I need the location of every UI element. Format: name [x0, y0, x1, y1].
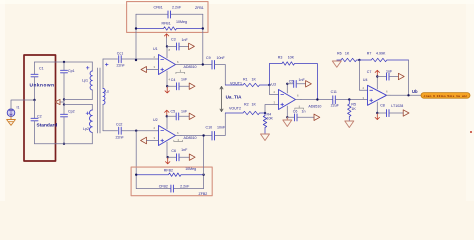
capacitor C9	[206, 56, 225, 85]
op-amp U3	[271, 83, 321, 118]
junction U4 V-	[376, 112, 378, 114]
ground I1	[7, 117, 16, 126]
svg-text:RFB2: RFB2	[164, 168, 173, 172]
inductor Ls	[103, 59, 109, 131]
capacitor CFB2	[136, 175, 203, 192]
wire U3 output	[301, 99, 332, 101]
junction R2/R4	[264, 112, 266, 114]
svg-text:C8: C8	[380, 103, 385, 107]
svg-text:U1: U1	[153, 47, 158, 51]
svg-text:LT1028: LT1028	[391, 104, 403, 108]
power flag rail C3	[189, 43, 195, 49]
power flag rail C7	[398, 73, 404, 79]
balance pins mark U2	[174, 139, 183, 141]
power flag V- U4	[375, 114, 379, 120]
svg-text:22nF: 22nF	[116, 136, 125, 140]
junction U1 V+	[166, 45, 168, 47]
capacitor Cp1	[61, 62, 75, 100]
power flag V- U1	[165, 87, 169, 93]
power flag rail C8	[403, 110, 409, 116]
junction R1/R3	[268, 84, 270, 86]
power flag rail U3 bottom	[314, 114, 320, 120]
svg-text:R7: R7	[367, 51, 372, 55]
svg-text:C3: C3	[171, 37, 176, 41]
svg-text:Cp1: Cp1	[68, 69, 75, 73]
junction U2 V-	[167, 156, 169, 158]
annotation arrow Ua_TIA	[220, 87, 223, 112]
svg-text:C5: C5	[289, 80, 294, 84]
svg-text:10K: 10K	[288, 55, 295, 59]
svg-text:U4: U4	[363, 78, 368, 82]
balance pins mark U1	[176, 70, 185, 74]
svg-text:C1: C1	[39, 67, 44, 71]
wire Ls bottom to Cc2	[103, 130, 118, 132]
svg-text:C9: C9	[206, 56, 211, 60]
capacitor C10	[206, 113, 226, 140]
svg-text:AD8510: AD8510	[184, 136, 197, 140]
svg-text:1nF: 1nF	[181, 77, 188, 81]
junction U4 V+	[376, 75, 378, 77]
svg-text:C11: C11	[331, 90, 337, 94]
junction RFB2 right	[202, 174, 204, 176]
capacitor C5 (U2 top)	[167, 109, 189, 120]
wire U1 V+	[166, 38, 168, 47]
wire R1 to U3 -in	[269, 85, 278, 95]
svg-text:RFB1: RFB1	[162, 22, 171, 26]
wire U4 output	[390, 94, 422, 96]
svg-text:Ua_TIA: Ua_TIA	[226, 95, 243, 100]
capacitor C11	[331, 90, 368, 107]
wire feedback U4	[408, 60, 410, 95]
svg-text:1nF: 1nF	[386, 69, 393, 73]
svg-text:1nF: 1nF	[181, 109, 188, 113]
junction U4 out	[407, 94, 409, 96]
wire U2 output	[181, 135, 212, 137]
svg-text:R5: R5	[351, 102, 356, 106]
resistor R3 feedback U3	[269, 55, 317, 99]
ground U3	[283, 117, 292, 126]
svg-text:22uF: 22uF	[331, 103, 340, 107]
capacitor Cp2	[61, 104, 75, 143]
transformer core	[98, 68, 100, 133]
capacitor C4	[167, 77, 189, 89]
svg-text:Unknown: Unknown	[30, 83, 55, 89]
inductor Lp2	[83, 104, 92, 143]
capacitor C7	[367, 69, 399, 80]
capacitor C3	[167, 37, 189, 50]
capacitor C6 (U2 bottom)	[168, 148, 190, 161]
svg-text:Cp2: Cp2	[68, 109, 75, 113]
capacitor C6 (U3 bottom)	[287, 109, 314, 121]
svg-text:10nF: 10nF	[217, 126, 226, 130]
power flag V- U2	[166, 158, 170, 164]
wire U1 V-	[166, 85, 168, 87]
svg-text:R6: R6	[337, 51, 342, 55]
svg-text:Ls: Ls	[105, 90, 109, 94]
svg-text:ZFB2: ZFB2	[199, 192, 208, 196]
power flag V+ U2	[165, 110, 169, 116]
resistor RFB2	[136, 167, 203, 177]
junction RFB1 left	[135, 27, 137, 29]
svg-text:10Meg: 10Meg	[185, 167, 196, 171]
junction Cp1 top	[63, 61, 65, 63]
capacitor CFB1	[136, 6, 203, 18]
power flag rail U3 top	[306, 81, 312, 87]
svg-text:Lp2: Lp2	[83, 127, 89, 131]
op-amp U2	[153, 116, 197, 157]
capacitor C8	[377, 103, 403, 116]
svg-text:C5: C5	[171, 110, 176, 114]
power flag rail C6	[189, 154, 195, 160]
svg-text:Cc2: Cc2	[116, 122, 122, 126]
svg-text:1nF: 1nF	[299, 78, 306, 82]
junction U2 out	[202, 134, 204, 136]
svg-text:R2: R2	[244, 103, 249, 107]
junction Cp2 bottom / wire D	[63, 143, 65, 145]
wire R2 to U3 +in	[265, 105, 279, 114]
op-amp U1	[153, 46, 197, 86]
junction RFB1 right	[202, 27, 204, 29]
junction I1/C1/C2	[33, 99, 35, 101]
junction U1 -in	[135, 59, 137, 61]
resistor R4	[263, 113, 273, 134]
svg-text:22nF: 22nF	[117, 64, 126, 68]
power flag V+ U1	[164, 34, 168, 38]
svg-text:10K: 10K	[267, 117, 274, 121]
junction U2 -in / feedback	[135, 130, 137, 132]
wire top A: C1 to Lp1	[35, 61, 93, 63]
svg-text:Cc1: Cc1	[117, 51, 123, 55]
svg-text:C7: C7	[367, 70, 372, 74]
svg-text:1K: 1K	[345, 51, 350, 55]
highlight box ZFB1	[127, 2, 208, 33]
wire Ls top to Cc1	[103, 58, 118, 60]
svg-text:C4: C4	[171, 78, 176, 82]
svg-text:U2: U2	[153, 118, 158, 122]
resistor R5	[348, 100, 357, 122]
resistor R6	[337, 51, 360, 61]
junction U3 V+	[286, 83, 288, 85]
highlight box DUT C1/C2	[24, 55, 56, 161]
capacitor C2 (Standard)	[31, 100, 57, 144]
wire feedback right vertical U2	[203, 136, 205, 175]
junction U2 V+	[166, 115, 168, 117]
svg-text:AD8510: AD8510	[184, 65, 197, 69]
junction R6/R7	[358, 59, 360, 61]
svg-text:R1: R1	[243, 78, 248, 82]
svg-text:1nF: 1nF	[181, 148, 188, 152]
svg-text:2.2nF: 2.2nF	[172, 6, 182, 10]
capacitor Cc1	[117, 51, 159, 67]
inductor Lp1	[82, 62, 92, 100]
capacitor C1 (Unknown)	[30, 62, 55, 100]
resistor R2	[225, 103, 265, 115]
svg-text:1nF: 1nF	[182, 38, 189, 42]
svg-text:1K: 1K	[351, 107, 356, 111]
svg-text:I1: I1	[17, 106, 20, 110]
wire I1 top	[11, 100, 35, 109]
wire U1 output	[181, 64, 212, 66]
svg-text:10Meg: 10Meg	[176, 20, 187, 24]
svg-text:1K: 1K	[252, 103, 257, 107]
svg-text:VOUT2: VOUT2	[229, 106, 241, 110]
stray mark	[470, 131, 472, 133]
svg-text:ZFB1: ZFB1	[195, 6, 204, 10]
svg-text:Lp1: Lp1	[82, 79, 88, 83]
svg-text:.tran 0 10ms 5ms 1u uic: .tran 0 10ms 5ms 1u uic	[423, 94, 468, 98]
ground R5	[345, 121, 354, 128]
balance pins mark U3	[295, 106, 304, 110]
svg-text:1n: 1n	[302, 109, 306, 113]
junction U3 V-	[286, 116, 288, 118]
svg-text:C6: C6	[293, 109, 298, 113]
capacitor Cc2	[116, 122, 159, 139]
resistor RFB1	[136, 20, 203, 30]
svg-text:Standard: Standard	[37, 123, 58, 129]
junction R5	[348, 98, 350, 100]
op-amp U4	[363, 77, 404, 114]
svg-text:10nF: 10nF	[217, 56, 226, 60]
svg-text:2.2nF: 2.2nF	[180, 184, 190, 188]
port flag U2 +in	[141, 137, 159, 144]
power flag rail C4	[189, 83, 195, 89]
wire feedback right vertical U1	[202, 14, 204, 64]
capacitor C5 (U3 top)	[287, 78, 305, 87]
svg-text:C10: C10	[206, 126, 213, 130]
svg-text:1K: 1K	[252, 78, 257, 82]
resistor R7	[359, 51, 408, 61]
port flag bridge common	[55, 99, 60, 104]
spice directive pill	[421, 93, 470, 99]
junction U1 out / ZFB1	[202, 63, 204, 65]
svg-text:AD8510: AD8510	[308, 104, 321, 108]
wire feedback left vertical U1	[135, 14, 137, 60]
svg-text:4.99K: 4.99K	[376, 51, 386, 55]
svg-text:R3: R3	[278, 55, 283, 59]
highlight box ZFB2	[131, 167, 212, 196]
ground R4	[261, 134, 270, 141]
junction Cp1 bottom	[63, 98, 65, 100]
junction U3 out	[316, 98, 318, 100]
svg-text:U3: U3	[271, 83, 276, 87]
resistor R1	[225, 78, 269, 87]
power flag V+ U4	[375, 70, 379, 76]
svg-text:CFB2: CFB2	[159, 184, 168, 188]
svg-text:C6: C6	[171, 149, 176, 153]
svg-text:Ub: Ub	[412, 89, 418, 94]
wire center tap	[60, 100, 92, 105]
wire R6/R7 node to U4 -in	[359, 60, 367, 90]
svg-text:C2: C2	[37, 114, 42, 118]
junction Cp2 top	[63, 103, 65, 105]
ground flag R6 left	[332, 61, 341, 67]
wire bottom D: C2 to Lp2	[35, 143, 93, 145]
svg-text:CFB1: CFB1	[154, 6, 163, 10]
junction RFB2 left	[135, 174, 137, 176]
port flag U1 +in	[141, 67, 159, 73]
power flag rail C5	[189, 113, 195, 119]
wire feedback left vertical U2	[135, 131, 137, 175]
current source I1	[7, 106, 19, 117]
